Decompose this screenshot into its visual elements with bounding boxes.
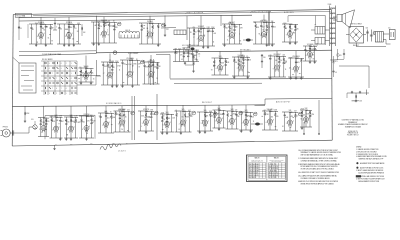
svg-text:270K: 270K [145, 67, 148, 69]
notes column left [298, 149, 341, 186]
wire riser x187 [186, 16, 188, 40]
tube V20 audio output [79, 106, 96, 140]
label trap [42, 53, 61, 56]
svg-text:5%: 5% [280, 60, 283, 62]
svg-text:A U D I O O U T P U T: A U D I O O U T P U T [276, 100, 290, 103]
coil box L15 [174, 30, 186, 35]
svg-text:50: 50 [158, 27, 160, 29]
svg-text:58 72 60 58 66: 58 72 60 58 66 [249, 164, 258, 166]
svg-text:1: 1 [71, 63, 72, 65]
svg-text:2: 2 [56, 93, 57, 95]
svg-text:42: 42 [254, 22, 256, 24]
resistor R88 input [24, 106, 30, 122]
wire bus mid2 [170, 78, 332, 80]
svg-text:5: 5 [125, 121, 126, 123]
svg-text:.001: .001 [225, 28, 228, 30]
svg-text:7: 7 [56, 78, 57, 80]
svg-text:10K: 10K [235, 62, 238, 64]
svg-text:33K: 33K [168, 118, 171, 120]
capacitor C72 hv [343, 49, 345, 59]
svg-text:6: 6 [46, 126, 47, 128]
svg-text:YOKE: YOKE [328, 4, 332, 6]
svg-text:90: 90 [121, 129, 123, 131]
svg-text:C47: C47 [70, 143, 73, 145]
svg-text:470: 470 [271, 117, 274, 119]
svg-text:60 42 57 76 26: 60 42 57 76 26 [269, 166, 278, 168]
svg-text:2: 2 [208, 121, 209, 123]
svg-text:33K: 33K [235, 27, 238, 29]
svg-text:6. ARROWS ON CONTROLS INDICATE: 6. ARROWS ON CONTROLS INDICATE DIRECTION… [298, 180, 338, 183]
svg-text:3: 3 [142, 123, 143, 125]
tube V11 agc amp [143, 55, 161, 84]
svg-text:270K: 270K [186, 116, 189, 118]
svg-text:10K: 10K [190, 116, 193, 118]
volume control R90 [31, 119, 37, 129]
svg-text:9: 9 [273, 68, 274, 70]
label tuner header [42, 59, 52, 61]
svg-text:8: 8 [71, 78, 72, 80]
svg-text:6: 6 [215, 121, 216, 123]
svg-text:7: 7 [286, 35, 287, 37]
svg-text:6: 6 [149, 120, 150, 122]
svg-text:B+ 135 V 18 KV: B+ 135 V 18 KV [284, 12, 294, 14]
svg-text:470: 470 [276, 116, 279, 118]
svg-text:5: 5 [56, 27, 57, 29]
svg-text:s/n 4127 G: s/n 4127 G [118, 151, 127, 153]
svg-text:220K: 220K [221, 62, 224, 64]
svg-text:LEGEND: LEGEND [356, 147, 361, 149]
svg-text:5%: 5% [163, 119, 166, 121]
svg-text:.01: .01 [60, 29, 62, 31]
svg-text:33 41 98 30 66: 33 41 98 30 66 [269, 175, 278, 177]
svg-text:470: 470 [193, 27, 196, 29]
svg-text:6: 6 [266, 122, 267, 124]
svg-text:7: 7 [133, 72, 134, 74]
tube voltage chart [247, 155, 288, 182]
svg-text:6: 6 [74, 127, 75, 129]
svg-text:49: 49 [282, 126, 284, 128]
wire bus jog [265, 98, 332, 104]
svg-text:68: 68 [32, 29, 34, 31]
svg-text:24: 24 [77, 31, 79, 33]
tube V27 blocking osc [213, 105, 226, 130]
svg-text:100K: 100K [161, 113, 164, 115]
svg-text:7: 7 [106, 76, 107, 78]
svg-text:39 19 12 69 89: 39 19 12 69 89 [249, 170, 258, 172]
svg-text:9: 9 [292, 69, 293, 71]
svg-text:24: 24 [151, 65, 153, 67]
svg-text:120: 120 [303, 114, 306, 116]
svg-text:2: 2 [237, 68, 238, 70]
wire top bus [19, 15, 252, 17]
label phono jack [3, 126, 9, 128]
transformer T4 blocking [315, 38, 325, 45]
svg-text:5 25 31 77 4: 5 25 31 77 4 [269, 164, 277, 166]
svg-text:2: 2 [66, 63, 67, 65]
svg-text:4: 4 [66, 88, 67, 90]
svg-text:SEL RECT: SEL RECT [353, 45, 360, 47]
svg-text:V17 6W4: V17 6W4 [307, 44, 314, 46]
svg-text:6.8K: 6.8K [285, 117, 288, 119]
svg-text:2. VOLTAGES AND WAVEFORMS TAKE: 2. VOLTAGES AND WAVEFORMS TAKEN WITH NO … [298, 157, 338, 160]
svg-text:3: 3 [244, 66, 245, 68]
tube V8 mixer oscillator [78, 56, 94, 85]
wire yoke links [311, 30, 330, 41]
svg-text:.001: .001 [82, 122, 85, 124]
tube V5 sync separator [187, 15, 216, 48]
svg-text:VOL: VOL [31, 119, 34, 121]
tube V7B small stage [282, 23, 298, 45]
svg-text:CRITICAL LEAD DRESS DO NOT MO: CRITICAL LEAD DRESS DO NOT MOVE [360, 175, 384, 178]
svg-text:L30 L31: L30 L31 [125, 30, 130, 32]
label video amp [113, 51, 138, 55]
svg-text:70: 70 [205, 117, 207, 119]
electrolytic C80 blob [251, 123, 263, 126]
svg-text:85: 85 [44, 30, 46, 32]
svg-text:4 5 6 3 2 1 8 9 0 7 2 1: 4 5 6 3 2 1 8 9 0 7 2 1 6 [182, 45, 198, 47]
tube V17B af input [38, 106, 49, 136]
electrolytic C40 blob [243, 39, 253, 42]
label audio output [276, 100, 290, 103]
resistor R6 interstage [81, 24, 85, 36]
svg-text:76 25 24 66 61: 76 25 24 66 61 [249, 166, 258, 168]
svg-text:270K: 270K [133, 64, 136, 66]
wire twin verts x150 [151, 59, 154, 85]
wire tuner agc [77, 76, 96, 85]
svg-text:55: 55 [72, 38, 74, 40]
svg-text:68: 68 [285, 28, 287, 30]
interlock plug P1 [389, 27, 396, 40]
svg-text:ALIGNMENT POINT SEE CHART ABO: ALIGNMENT POINT SEE CHART ABOVE [360, 162, 384, 165]
svg-text:85: 85 [301, 119, 303, 121]
svg-text:6: 6 [126, 75, 127, 77]
svg-text:69: 69 [109, 76, 111, 78]
svg-text:7: 7 [52, 73, 53, 75]
label low voltage rectifier [350, 23, 362, 25]
svg-text:V31: V31 [289, 110, 292, 112]
svg-text:5: 5 [82, 77, 83, 79]
svg-text:100K: 100K [209, 111, 212, 113]
connector J1 phono jack [1, 129, 19, 137]
svg-text:5. SAFETY GLASS REMOVED FOR S: 5. SAFETY GLASS REMOVED FOR SERVICE [356, 169, 383, 172]
svg-text:9: 9 [39, 129, 40, 131]
svg-text:470K: 470K [26, 113, 29, 115]
svg-text:4: 4 [49, 68, 50, 70]
svg-text:.01: .01 [74, 28, 76, 30]
svg-text:.05: .05 [181, 59, 183, 61]
svg-text:120: 120 [220, 114, 223, 116]
svg-text:PHONO: PHONO [3, 126, 9, 128]
svg-text:99: 99 [41, 132, 43, 134]
svg-text:2.2M: 2.2M [74, 116, 78, 118]
svg-text:V32: V32 [305, 108, 308, 110]
wire bus mid left [19, 51, 96, 56]
svg-text:75: 75 [176, 52, 178, 54]
capacitor C90 speaker plug [347, 90, 369, 103]
tube V16 horiz output [288, 51, 304, 80]
svg-text:2. B PLUS BOOST 385 V SOURCE: 2. B PLUS BOOST 385 V SOURCE [356, 151, 377, 153]
svg-text:11: 11 [227, 40, 229, 42]
svg-text:7: 7 [186, 121, 187, 123]
svg-text:87: 87 [265, 114, 267, 116]
svg-text:47: 47 [209, 30, 211, 32]
svg-text:1500: 1500 [283, 23, 286, 25]
svg-text:6: 6 [280, 66, 281, 68]
label ratio det [202, 101, 212, 104]
svg-text:63: 63 [295, 27, 297, 29]
electrolytic C35 blob [191, 47, 195, 50]
tube V25 af power out [175, 105, 196, 134]
svg-text:.001: .001 [107, 117, 110, 119]
notes column right [356, 147, 387, 183]
svg-text:470: 470 [180, 55, 183, 57]
tube V28 discharge [226, 105, 243, 129]
svg-text:1: 1 [223, 65, 224, 67]
svg-text:33K: 33K [248, 60, 251, 62]
svg-text:470: 470 [313, 45, 316, 47]
svg-text:33K: 33K [158, 66, 161, 68]
svg-text:6. SEE PHOTOFACT FOLDER FOR P: 6. SEE PHOTOFACT FOLDER FOR PARTS LIST [356, 177, 385, 180]
svg-text:9: 9 [61, 68, 62, 70]
svg-text:V30 6AL5: V30 6AL5 [267, 108, 274, 111]
svg-text:4. ALL RESISTORS 1/2 WATT 10 P: 4. ALL RESISTORS 1/2 WATT 10 PCT UNLESS … [298, 171, 339, 174]
svg-text:10K: 10K [251, 116, 254, 118]
wire left drop [18, 17, 22, 40]
wire ps bottom [353, 45, 386, 47]
capacitor C73 [332, 66, 337, 77]
svg-text:C60: C60 [366, 28, 369, 30]
coil L30 peaking ladder [119, 30, 139, 38]
svg-text:47K: 47K [138, 64, 141, 66]
svg-text:5. ALL CAPACITOR VALUES IN MFD: 5. ALL CAPACITOR VALUES IN MFD UNLESS MA… [298, 174, 337, 177]
svg-text:TV 1517 RMA: TV 1517 RMA [16, 14, 25, 17]
tube V23 ratio detector [138, 106, 158, 134]
svg-text:10K: 10K [51, 28, 54, 30]
svg-text:84: 84 [263, 30, 265, 32]
wire B+ bus mid [96, 50, 332, 53]
svg-text:R A T I O D E T: R A T I O D E T [202, 101, 212, 104]
svg-text:1: 1 [239, 34, 240, 36]
svg-text:68: 68 [293, 33, 295, 35]
svg-text:1K: 1K [113, 21, 115, 23]
svg-text:6: 6 [56, 88, 57, 90]
svg-text:8: 8 [154, 72, 155, 74]
svg-text:68: 68 [57, 120, 59, 122]
svg-text:7: 7 [61, 88, 62, 90]
svg-text:9: 9 [49, 63, 50, 65]
svg-text:3: 3 [204, 36, 205, 38]
svg-text:48: 48 [132, 65, 134, 67]
svg-text:67: 67 [139, 67, 141, 69]
svg-text:2: 2 [153, 33, 154, 35]
svg-text:R70: R70 [339, 55, 342, 57]
label sound if [106, 102, 122, 105]
tube V6 vertical osc [222, 15, 243, 47]
svg-text:.01: .01 [291, 29, 293, 31]
tube V26 vert integrator [197, 105, 217, 133]
svg-text:9: 9 [147, 75, 148, 77]
capacitor C60 filter [366, 28, 369, 42]
svg-text:.01: .01 [195, 31, 197, 33]
resistor R70 bleeder [337, 49, 342, 60]
border frame top line [13, 10, 331, 15]
svg-text:10K: 10K [172, 118, 175, 120]
svg-text:5: 5 [52, 129, 53, 131]
capacitor C50 ladder [261, 54, 266, 68]
svg-text:3. RESISTANCE READINGS TAKEN W: 3. RESISTANCE READINGS TAKEN WITH SET UN… [298, 163, 340, 166]
svg-text:8: 8 [61, 63, 62, 65]
svg-text:4: 4 [313, 52, 314, 54]
svg-text:29: 29 [247, 116, 249, 118]
svg-text:67 30 82 38 64: 67 30 82 38 64 [269, 168, 278, 170]
svg-text:35: 35 [310, 116, 312, 118]
wire hv links [317, 43, 344, 60]
svg-text:1K: 1K [113, 67, 115, 69]
label keyed agc [240, 48, 251, 51]
wire speaker leads [333, 17, 337, 20]
tube V13 sync amp [211, 51, 229, 75]
tube V19 af driver [64, 106, 80, 140]
wire vert x304 arrow [303, 122, 305, 135]
svg-text:1K: 1K [92, 73, 94, 75]
svg-text:7: 7 [235, 33, 236, 35]
capacitor C5 interstage [54, 18, 57, 30]
svg-text:120: 120 [67, 122, 70, 124]
svg-text:1K: 1K [125, 116, 127, 118]
svg-text:6.8K: 6.8K [269, 55, 272, 57]
svg-text:.005: .005 [282, 55, 285, 57]
svg-text:220K: 220K [274, 110, 277, 112]
svg-text:40: 40 [87, 133, 89, 135]
svg-text:15: 15 [119, 70, 121, 72]
svg-text:R30: R30 [195, 59, 198, 61]
wire vert x157 [156, 94, 158, 140]
svg-text:86: 86 [147, 28, 149, 30]
wire focus lead [339, 66, 369, 88]
svg-text:TABLE II: TABLE II [274, 157, 280, 160]
transformer T3 vertical out [315, 25, 326, 34]
svg-text:270K: 270K [117, 66, 120, 68]
svg-text:120: 120 [235, 110, 238, 112]
svg-text:12: 12 [188, 53, 190, 55]
tube V15 horiz osc [268, 51, 287, 79]
svg-text:22: 22 [37, 42, 39, 44]
svg-text:24: 24 [112, 26, 114, 28]
svg-text:.047: .047 [294, 111, 297, 113]
wire interlock link [383, 34, 390, 44]
svg-text:33K: 33K [256, 27, 259, 29]
svg-text:6.8K: 6.8K [226, 62, 229, 64]
svg-text:47K: 47K [240, 28, 243, 30]
svg-text:17: 17 [193, 37, 195, 39]
svg-text:270K: 270K [211, 27, 214, 29]
svg-text:27: 27 [103, 73, 105, 75]
svg-text:1K: 1K [110, 112, 112, 114]
svg-text:A C: A C [389, 27, 391, 30]
border frame top inner line [33, 11, 331, 15]
svg-text:1500: 1500 [178, 49, 181, 51]
svg-text:1: 1 [286, 123, 287, 125]
tube V29 horiz afc [239, 105, 257, 132]
wire twin vert x132 [132, 96, 134, 140]
border frame left line [12, 15, 13, 147]
svg-text:47K: 47K [239, 62, 242, 64]
svg-text:5: 5 [201, 123, 202, 125]
svg-text:1500: 1500 [112, 117, 115, 119]
svg-text:39: 39 [213, 66, 215, 68]
svg-text:.01: .01 [175, 110, 177, 112]
wire bus mid3 [174, 82, 262, 84]
svg-text:85: 85 [284, 63, 286, 65]
svg-text:2.2M: 2.2M [92, 120, 96, 122]
svg-text:2: 2 [109, 122, 110, 124]
svg-text:36 53 71 11 91: 36 53 71 11 91 [269, 173, 278, 175]
svg-text:.005: .005 [273, 27, 276, 29]
svg-text:47K: 47K [237, 116, 240, 118]
capacitor C61 filter [370, 30, 373, 42]
wire vert x319 arrow [318, 100, 320, 135]
tube V17 damper [303, 44, 317, 64]
svg-text:22: 22 [289, 67, 291, 69]
svg-text:33K: 33K [271, 21, 274, 23]
svg-text:6.8K: 6.8K [311, 49, 314, 51]
svg-text:.005: .005 [197, 53, 200, 55]
capacitor C22 coupling [164, 15, 169, 36]
svg-text:5: 5 [170, 122, 171, 124]
svg-text:5: 5 [267, 32, 268, 34]
svg-text:25: 25 [156, 78, 158, 80]
tube V30 horiz disc [262, 108, 279, 130]
svg-text:31: 31 [93, 78, 95, 80]
svg-text:9: 9 [107, 32, 108, 34]
svg-text:1 85 11 59 84: 1 85 11 59 84 [269, 170, 277, 172]
svg-text:7: 7 [67, 129, 68, 131]
svg-text:9: 9 [37, 36, 38, 38]
tube V9 1st video amp [101, 54, 121, 88]
svg-text:COURTESY OF NATIONAL CO INC: COURTESY OF NATIONAL CO INC [342, 119, 364, 122]
svg-text:1K: 1K [306, 51, 308, 53]
svg-text:80 2 68 9 8: 80 2 68 9 8 [249, 177, 256, 179]
svg-text:2.2M: 2.2M [311, 114, 315, 116]
wire jack to volume [18, 127, 33, 133]
tube V12 agc clamp [173, 46, 200, 61]
svg-text:6: 6 [216, 68, 217, 70]
tube V2 2nd video IF [57, 17, 81, 46]
wire top bus second [19, 20, 155, 21]
svg-text:4: 4 [228, 36, 229, 38]
svg-text:270K: 270K [115, 61, 118, 63]
svg-text:4: 4 [146, 35, 147, 37]
tube V32 regulator [300, 108, 315, 130]
border frame right line [331, 10, 334, 141]
svg-text:49: 49 [239, 65, 241, 67]
svg-text:3: 3 [291, 38, 292, 40]
svg-text:2: 2 [179, 123, 180, 125]
svg-text:20: 20 [222, 69, 224, 71]
svg-text:2: 2 [293, 121, 294, 123]
tube V7 vertical output [253, 15, 276, 47]
resistor R80 surge [373, 31, 375, 35]
tube V21 sound if 1 [98, 106, 115, 133]
svg-text:3: 3 [49, 93, 50, 95]
deflection yoke assembly [328, 4, 336, 46]
svg-text:33K: 33K [199, 32, 202, 34]
svg-text:.047: .047 [262, 27, 265, 29]
svg-text:C50: C50 [263, 57, 266, 59]
hv cage box [288, 15, 325, 45]
svg-text:82 6 77 51 58: 82 6 77 51 58 [249, 173, 257, 175]
svg-text:5: 5 [118, 123, 119, 125]
